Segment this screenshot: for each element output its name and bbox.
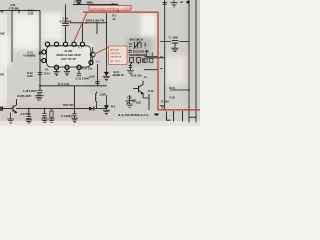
svg-text:R·1k: R·1k — [148, 89, 154, 93]
svg-text:zasilania: zasilania — [110, 55, 122, 59]
top mid rail — [73, 3, 118, 5]
scan paper background — [0, 0, 200, 141]
IC internal text — [56, 49, 81, 61]
cap cross mark on V2 — [39, 52, 42, 55]
long vertical x196 — [195, 0, 197, 123]
red rail — [83, 11, 157, 13]
wire y69.7 to red edge — [144, 69, 159, 71]
svg-text:ok. 14,7: ok. 14,7 — [110, 59, 121, 63]
red leader to transistor — [96, 47, 110, 54]
svg-text:C·32: C·32 — [169, 96, 175, 100]
svg-text:C 0.0033: C 0.0033 — [61, 114, 72, 118]
svg-text:IC·201: IC·201 — [65, 49, 73, 53]
mid rail y22.8 — [70, 22, 107, 24]
ground right of 0.1 cap — [35, 92, 42, 100]
svg-text:R·31: R·31 — [169, 86, 175, 90]
svg-text:NNNNNNNNN: NNNNNNNNN — [129, 53, 146, 57]
text labels middle — [17, 67, 95, 98]
transformer T1 symbols — [128, 41, 162, 68]
svg-text:C· 1000: C· 1000 — [169, 35, 179, 39]
long vertical x189 — [188, 0, 190, 123]
svg-text:0.1(M) 400V: 0.1(M) 400V — [17, 94, 32, 98]
node tick on rail — [18, 11, 20, 14]
svg-text:0.5S: 0.5S — [90, 74, 96, 78]
wire transformer to x164 — [146, 57, 165, 59]
red bottom line — [158, 109, 200, 111]
left edge terminal blob — [0, 107, 2, 110]
wire drop to IC pin4 — [82, 23, 84, 42]
wire left edge lead — [0, 108, 8, 110]
transformer T1 cluster text — [113, 37, 155, 104]
bottom hooks below red line — [155, 111, 196, 122]
diode D2 bottom-mid with ground — [126, 95, 135, 107]
wire pin10 down — [78, 69, 80, 73]
svg-text:1R: 1R — [45, 68, 48, 72]
svg-text:4.2: 4.2 — [96, 59, 100, 63]
wire vertical x106.5 — [106, 13, 108, 63]
capacitor across V2 — [38, 72, 43, 74]
svg-text:+B: +B — [180, 0, 184, 4]
svg-text:C·18 0.0047: C·18 0.0047 — [23, 89, 38, 93]
dark smudge zones — [126, 37, 152, 65]
ground mid x106 lower — [103, 95, 116, 115]
svg-text:R·1: R·1 — [112, 13, 117, 17]
red note box top — [89, 5, 131, 10]
red corner arc — [156, 11, 159, 14]
ground top-right — [171, 0, 178, 7]
bottom-mid rail y86 — [40, 85, 107, 87]
transistor Q3 bottom-left — [8, 99, 17, 113]
svg-text:R·17 2.2k: R·17 2.2k — [58, 82, 70, 86]
pin 12 right circle — [89, 61, 93, 65]
+B square top-right — [180, 0, 190, 4]
svg-text:R·21 10k: R·21 10k — [131, 74, 142, 78]
wire x97.5 upper — [96, 23, 98, 34]
pin 8 bottom circle — [54, 65, 58, 69]
svg-text:1W: 1W — [0, 32, 5, 36]
ground under V2 capacitor — [36, 93, 43, 100]
wire drop x118 — [117, 4, 119, 12]
svg-text:N⁋M□: N⁋M□ — [87, 0, 95, 4]
svg-text:A-1: A-1 — [78, 46, 83, 50]
pin 16 left circle — [42, 58, 46, 62]
red vertical edge — [157, 12, 159, 110]
junction dots — [18, 10, 190, 109]
wire C709 stack — [65, 4, 67, 41]
wire pin9 to ground — [66, 69, 68, 71]
pin 3 top circle — [54, 42, 58, 46]
IC U201 body — [42, 42, 93, 69]
svg-text:R 0.82: R 0.82 — [161, 100, 169, 104]
wire IC left pin 1 — [40, 51, 43, 53]
svg-text:C·16 0.0047: C·16 0.0047 — [76, 76, 91, 80]
svg-text:MADE IN: MADE IN — [113, 73, 124, 77]
svg-text:1·2W: 1·2W — [99, 92, 106, 96]
wire x97.5 lower — [97, 64, 99, 86]
wire stub right of arrow — [94, 108, 107, 110]
capacitor at pin10 — [77, 74, 81, 76]
wire IC left pin 2 — [40, 60, 43, 62]
svg-text:100k: 100k — [27, 74, 33, 78]
terminal bars top of x164.7 — [163, 2, 167, 4]
ground mid x106 upper — [103, 63, 110, 81]
capacitor C at V2 lower — [37, 86, 42, 93]
capacitor bars on x97.5 — [95, 81, 99, 83]
wire top-left rail — [0, 10, 40, 12]
svg-text:4·99: 4·99 — [10, 3, 16, 7]
svg-text:-W: -W — [0, 9, 4, 13]
capacitor C20 on bottom rail — [41, 109, 47, 123]
wire drop x95 to red rail — [94, 4, 96, 11]
pin 4 top circle — [63, 42, 67, 46]
pin 2 top circle — [45, 42, 49, 46]
pin 6 top circle — [80, 42, 84, 46]
ground under pin9 — [64, 72, 70, 76]
svg-text:punkt pracy zasilacza – +115V: punkt pracy zasilacza – +115V — [90, 6, 131, 10]
wire Q2 emitter to node — [143, 94, 149, 110]
svg-text:0.47/50V: 0.47/50V — [21, 112, 32, 116]
capacitor C19 on bottom rail — [21, 109, 32, 123]
svg-text:45O 16O N: 45O 16O N — [130, 37, 143, 41]
svg-text:R48 15O: R48 15O — [63, 103, 73, 107]
diode arrow on bottom rail — [89, 106, 94, 110]
inductor L12 vertical — [95, 92, 96, 109]
pin 1 left circle — [42, 50, 46, 54]
svg-text:B+C 2SC1815(S) E·F·G: B+C 2SC1815(S) E·F·G — [118, 113, 148, 117]
right area long vertical x164.7 — [144, 0, 196, 123]
pin 9 bottom circle — [65, 65, 69, 69]
wire cap cluster ticks — [160, 41, 189, 43]
red diagonal to IC pin — [74, 12, 87, 41]
text labels top-left — [0, 0, 117, 76]
capacitor C709 plates — [62, 24, 69, 26]
ground under pin8 — [53, 72, 59, 76]
transistor Q201 circle — [90, 52, 95, 57]
svg-text:R706 0.39k 7W: R706 0.39k 7W — [86, 19, 105, 23]
wire pin8 to ground — [56, 69, 58, 71]
wire corner down to bottom rail — [74, 86, 76, 109]
wire right y90 — [170, 89, 189, 91]
svg-text:EAV ‘VE’ 5P: EAV ‘VE’ 5P — [61, 57, 76, 61]
transistor Q2 mid-bottom — [133, 81, 143, 98]
top C701 symbol — [76, 1, 81, 5]
capacitor C1000 cluster right — [169, 35, 179, 51]
svg-text:R·2: R·2 — [111, 105, 116, 109]
pin 10 bottom circle — [77, 65, 81, 69]
small ground in red zone — [160, 105, 165, 108]
ground under Q3 — [7, 112, 13, 123]
svg-text:4.7R (M): 4.7R (M) — [8, 7, 18, 11]
wire vertical V1 — [11, 11, 13, 62]
svg-text:R·14: R·14 — [44, 72, 50, 76]
svg-text:SE110 FLASH TRAP: SE110 FLASH TRAP — [56, 53, 81, 57]
svg-text:22O: 22O — [136, 101, 141, 105]
svg-text:0.0068(M): 0.0068(M) — [23, 54, 35, 58]
svg-text:2.2K: 2.2K — [28, 11, 34, 15]
wire vertical V2 — [39, 11, 41, 90]
pin 5 top circle — [72, 42, 76, 46]
bright clean zones — [13, 14, 39, 50]
red note box middle — [109, 46, 127, 64]
svg-text:R·15 100: R·15 100 — [82, 67, 93, 71]
transistor Q201 leads — [92, 47, 94, 65]
diode D1 with ground — [127, 64, 134, 74]
left lighter margin — [0, 14, 7, 106]
small ground left of C52 — [125, 101, 129, 104]
capacitor C21 on bottom rail — [61, 109, 78, 123]
svg-text:2W: 2W — [0, 72, 4, 76]
bottom rail y108.6 — [16, 108, 89, 110]
svg-text:0.0039(M): 0.0039(M) — [60, 20, 72, 24]
resistor R49 vertical with ground — [48, 109, 54, 123]
